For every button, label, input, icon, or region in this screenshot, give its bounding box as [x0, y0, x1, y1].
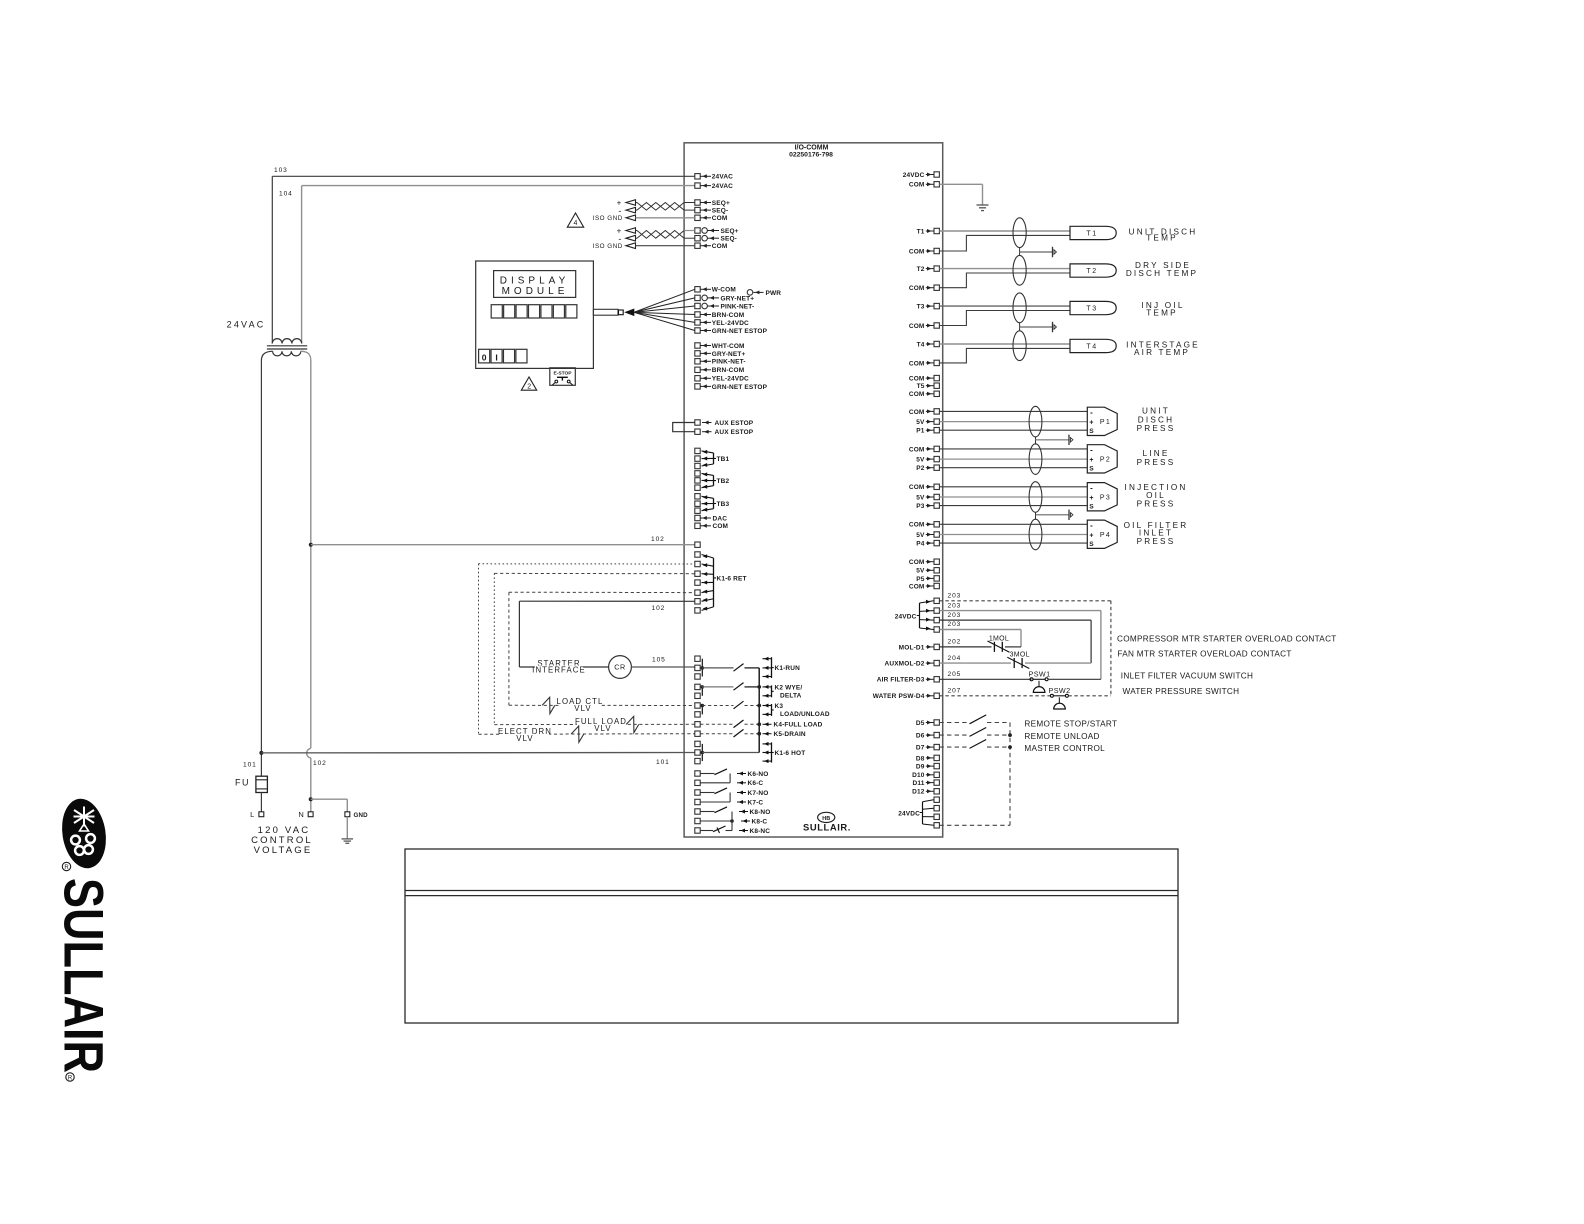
shield drain T3/T4: [1019, 323, 1021, 331]
svg-text:24VAC: 24VAC: [712, 174, 733, 181]
svg-text:K6-C: K6-C: [748, 780, 764, 787]
terminal T2: [934, 266, 939, 271]
wire 104: [302, 185, 695, 187]
sensor P1 body: [1087, 407, 1117, 435]
svg-text:WATER PSW-D4: WATER PSW-D4: [873, 693, 925, 700]
terminal PINK-NET- A: [695, 303, 700, 308]
svg-text:1MOL: 1MOL: [989, 635, 1009, 642]
svg-text:D12: D12: [912, 789, 925, 796]
svg-text:24VAC: 24VAC: [227, 319, 266, 329]
svg-text:207: 207: [948, 688, 962, 695]
wire dashed LOAD CTL loop top: [509, 591, 695, 593]
svg-text:GRY-NET+: GRY-NET+: [712, 351, 746, 358]
svg-text:T4: T4: [917, 341, 925, 348]
contact K4: [700, 723, 733, 725]
svg-text:SULLAIR.: SULLAIR.: [803, 822, 851, 833]
svg-text:P1: P1: [916, 428, 924, 435]
svg-text:203: 203: [948, 593, 962, 600]
wires P4: [939, 523, 1087, 525]
svg-text:P4: P4: [916, 541, 924, 548]
sensor T3 body: [1070, 301, 1116, 314]
svg-text:BRN-COM: BRN-COM: [712, 367, 744, 374]
terminal COM P5b: [934, 583, 939, 588]
terminal 24VDC top: [934, 172, 939, 177]
svg-text:SEQ+: SEQ+: [721, 228, 739, 235]
terminal 102 in: [695, 542, 700, 547]
terminal YEL-24VDC A: [695, 320, 700, 325]
svg-text:VLV: VLV: [516, 734, 533, 743]
svg-text:REMOTE STOP/START: REMOTE STOP/START: [1024, 719, 1117, 728]
wire T4: [939, 343, 1070, 345]
terminal COM T3: [934, 323, 939, 328]
svg-text:K5-DRAIN: K5-DRAIN: [774, 731, 806, 738]
svg-text:T2: T2: [1086, 268, 1097, 275]
terminal BRN-COM A: [695, 312, 700, 317]
svg-text:COM: COM: [909, 360, 925, 367]
svg-text:DELTA: DELTA: [780, 692, 802, 699]
svg-text:TB3: TB3: [717, 501, 730, 508]
svg-text:203: 203: [948, 621, 962, 628]
svg-text:YEL-24VDC: YEL-24VDC: [712, 320, 749, 327]
svg-text:-: -: [1090, 484, 1093, 493]
wire dashed LOAD CTL VLV: [509, 704, 695, 706]
svg-text:AIR FILTER-D3: AIR FILTER-D3: [877, 677, 925, 684]
terminal WATER PSW-D4: [934, 693, 939, 698]
svg-text:101: 101: [243, 762, 257, 769]
svg-text:SEQ-: SEQ-: [721, 236, 738, 243]
svg-text:GRN-NET ESTOP: GRN-NET ESTOP: [712, 328, 768, 335]
wire 101: [259, 751, 263, 755]
terminal AUX ESTOP 2: [695, 429, 700, 434]
terminal COM spare: [934, 375, 939, 380]
wire 203 dashed loop (water): [939, 600, 1111, 602]
terminal AUXMOL-D2: [934, 660, 939, 665]
svg-text:PSW2: PSW2: [1049, 686, 1071, 695]
sensor P3 body: [1087, 483, 1117, 511]
terminal COM T1: [934, 248, 939, 253]
svg-text:COM: COM: [909, 583, 925, 590]
terminal group K1-6 HOT: [695, 741, 700, 746]
terminal 5V P1: [934, 419, 939, 424]
svg-text:COM: COM: [909, 409, 925, 416]
svg-text:5V: 5V: [916, 457, 925, 464]
svg-text:5V: 5V: [916, 568, 925, 575]
svg-text:K4-FULL LOAD: K4-FULL LOAD: [774, 722, 823, 729]
svg-text:203: 203: [948, 612, 962, 619]
terminal GND: [345, 812, 350, 817]
terminal COM P5a: [934, 559, 939, 564]
relay contact K7: [695, 790, 700, 795]
terminal GRY-NET+ A: [695, 295, 700, 300]
svg-text:SEQ+: SEQ+: [712, 200, 730, 207]
svg-text:COM: COM: [909, 522, 925, 529]
terminal P3: [934, 503, 939, 508]
wire 204 + contact 3MOL: [939, 662, 1011, 664]
wire COM T1 step: [939, 235, 1070, 251]
svg-text:GND: GND: [354, 812, 369, 819]
ground symbol top right: [977, 204, 989, 206]
svg-text:D5: D5: [916, 720, 925, 727]
svg-text:WHT-COM: WHT-COM: [712, 343, 745, 350]
svg-text:VOLTAGE: VOLTAGE: [254, 845, 313, 856]
svg-text:AUX ESTOP: AUX ESTOP: [715, 429, 754, 436]
relay contact K8: [695, 809, 700, 814]
svg-text:-: -: [1090, 446, 1093, 455]
svg-text:K6-NO: K6-NO: [748, 771, 769, 778]
terminal D9: [934, 763, 939, 768]
shield ellipse P3: [1029, 482, 1042, 513]
svg-text:24VAC: 24VAC: [712, 183, 733, 190]
wire dotted ELECT DRN loop top: [479, 563, 695, 565]
terminal PINK-NET- B: [695, 359, 700, 364]
svg-text:GRN-NET ESTOP: GRN-NET ESTOP: [712, 384, 768, 391]
terminal D5: [934, 720, 939, 725]
wire 205 + switch PSW1: [939, 678, 1031, 680]
label STARTER INTERFACE: [540, 659, 578, 668]
svg-text:COMPRESSOR MTR STARTER OVERLOA: COMPRESSOR MTR STARTER OVERLOAD CONTACT: [1117, 635, 1337, 644]
wire T3: [939, 305, 1070, 307]
terminal GRN-NET ESTOP B: [695, 384, 700, 389]
terminal block K1-6 RET: [695, 552, 700, 557]
shield ellipse T4: [1013, 331, 1026, 361]
terminal MOL-D1: [934, 644, 939, 649]
terminal 24VAC-2: [695, 183, 700, 188]
svg-text:INLET FILTER VACUUM SWITCH: INLET FILTER VACUUM SWITCH: [1121, 672, 1253, 681]
svg-text:K7-C: K7-C: [748, 799, 764, 806]
shield ellipse P2: [1029, 444, 1042, 475]
svg-text:S: S: [1089, 541, 1094, 548]
svg-text:K8-C: K8-C: [752, 818, 768, 825]
svg-text:COM: COM: [909, 484, 925, 491]
svg-text:PRESS: PRESS: [1137, 537, 1176, 546]
terminal group K2: [695, 684, 700, 689]
terminal T3: [934, 303, 939, 308]
svg-text:TB1: TB1: [717, 456, 730, 463]
terminal K5: [695, 731, 700, 736]
shield ellipse T3: [1013, 293, 1026, 323]
svg-text:24VDC: 24VDC: [895, 613, 917, 620]
shield drain P3/P4: [1035, 512, 1037, 520]
wire 207 + switch PSW2: [939, 695, 1050, 697]
svg-text:203: 203: [948, 602, 962, 609]
twisted pair 1: [637, 203, 684, 211]
svg-text:T2: T2: [917, 266, 925, 273]
display cable stub: [593, 309, 618, 315]
svg-text:3MOL: 3MOL: [1010, 652, 1030, 659]
terminal D7: [934, 744, 939, 749]
ground earth symbol: [346, 817, 348, 839]
svg-text:205: 205: [948, 671, 962, 678]
svg-text:COM: COM: [909, 323, 925, 330]
svg-text:REMOTE UNLOAD: REMOTE UNLOAD: [1024, 732, 1099, 741]
svg-text:+: +: [1089, 532, 1093, 539]
terminal 5V P5: [934, 568, 939, 573]
wire dashed D bus vertical: [1009, 723, 1011, 826]
wire COM to ground: [939, 183, 982, 185]
terminal WHT-COM: [695, 343, 700, 348]
svg-text:MASTER CONTROL: MASTER CONTROL: [1024, 744, 1105, 753]
contact K3: [702, 705, 733, 707]
svg-text:4: 4: [573, 220, 577, 227]
terminal SEQ+ B: [695, 228, 700, 233]
svg-text:T4: T4: [1086, 343, 1097, 350]
shield drain P1/P2: [1035, 437, 1037, 445]
terminal 5V P4: [934, 532, 939, 537]
svg-text:COM: COM: [909, 376, 925, 383]
svg-text:COM: COM: [909, 248, 925, 255]
warning triangle 2: [521, 377, 536, 390]
svg-text:D11: D11: [912, 780, 924, 787]
terminal COM P3: [934, 484, 939, 489]
sensor T4 body: [1070, 339, 1116, 352]
svg-text:2: 2: [527, 383, 531, 390]
svg-text:I: I: [495, 352, 498, 362]
svg-text:T3: T3: [1086, 305, 1097, 312]
svg-text:T1: T1: [917, 228, 925, 235]
node N-GND branch: [309, 797, 313, 801]
svg-text:E-STOP: E-STOP: [553, 370, 572, 376]
title block: [405, 849, 1178, 1023]
wire ISO GND 2: [636, 245, 695, 247]
svg-text:VLV: VLV: [594, 724, 611, 733]
svg-text:PRESS: PRESS: [1137, 424, 1176, 433]
svg-text:PINK-NET-: PINK-NET-: [712, 359, 746, 366]
svg-text:DAC: DAC: [713, 515, 728, 522]
terminal group K3: [695, 703, 700, 708]
terminal D12: [934, 789, 939, 794]
sensor T2 body: [1070, 264, 1116, 277]
connector arrow + pin pair1: [626, 200, 636, 206]
wire 103: [272, 175, 695, 177]
svg-text:D9: D9: [916, 764, 925, 771]
svg-text:105: 105: [652, 656, 666, 663]
terminal COM P2: [934, 446, 939, 451]
shield ellipse P4: [1029, 519, 1042, 550]
svg-text:DISCH TEMP: DISCH TEMP: [1126, 269, 1198, 278]
e-stop switch: [550, 368, 576, 386]
terminal 24VAC-1: [695, 174, 700, 179]
svg-text:N: N: [298, 810, 304, 819]
terminal P4: [934, 540, 939, 545]
svg-text:103: 103: [274, 167, 288, 174]
terminal COM spare2: [934, 391, 939, 396]
svg-text:+: +: [1089, 419, 1093, 426]
shield ellipse P1: [1029, 406, 1042, 437]
svg-text:P3: P3: [1100, 495, 1111, 502]
connector arrow + pin pair2: [626, 228, 636, 234]
wire solid starter loop: [519, 600, 694, 602]
svg-text:K1-6 RET: K1-6 RET: [717, 575, 747, 582]
svg-text:101: 101: [656, 759, 670, 766]
svg-text:T5: T5: [917, 383, 925, 390]
terminal block TB1: [695, 448, 700, 453]
terminal COM A: [695, 215, 700, 220]
terminal COM gnd: [934, 182, 939, 187]
svg-text:LOAD/UNLOAD: LOAD/UNLOAD: [780, 711, 830, 718]
terminal W-COM: [695, 287, 700, 292]
wires P3: [939, 486, 1087, 488]
svg-text:ISO GND: ISO GND: [593, 243, 623, 250]
terminal GRY-NET+ B: [695, 351, 700, 356]
display fan-out wires: [634, 289, 695, 312]
svg-text:P2: P2: [1100, 457, 1111, 464]
contact K2: [702, 686, 733, 688]
terminal P2: [934, 465, 939, 470]
svg-text:24VDC: 24VDC: [903, 172, 925, 179]
svg-text:-: -: [1090, 521, 1093, 530]
contact K5: [700, 733, 733, 735]
terminal AIR FILTER-D3: [934, 677, 939, 682]
Sullair logo: [53, 796, 116, 1082]
svg-text:K2 WYE/: K2 WYE/: [775, 685, 803, 692]
svg-text:AIR TEMP: AIR TEMP: [1134, 348, 1190, 357]
svg-text:K8-NC: K8-NC: [750, 828, 771, 835]
svg-text:K7-NO: K7-NO: [748, 790, 769, 797]
terminal COM P1: [934, 409, 939, 414]
terminal block TB2: [695, 471, 700, 476]
terminal group 24VDC interlock: [934, 598, 939, 603]
module U1 I/O-COMM box: [684, 143, 943, 837]
svg-text:UNIT: UNIT: [1142, 407, 1170, 416]
svg-text:02250176-798: 02250176-798: [789, 151, 833, 158]
svg-text:SULLAIR: SULLAIR: [53, 878, 116, 1073]
svg-text:D8: D8: [916, 755, 925, 762]
svg-text:S: S: [1089, 503, 1094, 510]
svg-text:202: 202: [948, 639, 962, 646]
svg-text:WATER PRESSURE SWITCH: WATER PRESSURE SWITCH: [1123, 687, 1240, 696]
terminal DAC: [695, 515, 700, 520]
svg-text:TEMP: TEMP: [1146, 309, 1178, 318]
svg-text:K1-6 HOT: K1-6 HOT: [775, 750, 806, 757]
terminal N: [308, 812, 313, 817]
terminal SEQ+ A: [695, 200, 700, 205]
svg-text:R: R: [64, 865, 69, 871]
svg-text:PRESS: PRESS: [1137, 500, 1176, 509]
svg-text:102: 102: [313, 760, 327, 767]
svg-text:SEQ-: SEQ-: [712, 208, 729, 215]
svg-text:COM: COM: [909, 446, 925, 453]
terminal 5V P2: [934, 456, 939, 461]
svg-text:104: 104: [279, 191, 293, 198]
svg-text:MODULE: MODULE: [502, 286, 569, 297]
svg-text:T3: T3: [917, 304, 925, 311]
svg-text:AUX ESTOP: AUX ESTOP: [715, 420, 754, 427]
terminal PWR: [747, 290, 753, 296]
svg-text:AUXMOL-D2: AUXMOL-D2: [885, 661, 925, 668]
terminal COM B: [695, 243, 700, 248]
fuse FU: [256, 776, 268, 792]
terminal P5: [934, 576, 939, 581]
terminal COM P4: [934, 522, 939, 527]
svg-text:FAN MTR STARTER OVERLOAD CONTA: FAN MTR STARTER OVERLOAD CONTACT: [1117, 650, 1291, 659]
svg-text:-: -: [1090, 408, 1093, 417]
svg-text:PINK-NET-: PINK-NET-: [721, 303, 755, 310]
svg-text:24VDC: 24VDC: [898, 810, 920, 817]
sensor P4 body: [1087, 520, 1117, 548]
wire COM T3 step: [939, 311, 1070, 326]
svg-text:PRESS: PRESS: [1137, 458, 1176, 467]
terminal D10: [934, 772, 939, 777]
terminal SEQ- A: [695, 207, 700, 212]
wires P2: [939, 448, 1087, 450]
svg-text:5V: 5V: [916, 494, 925, 501]
bus K contacts vertical: [758, 668, 760, 753]
svg-text:102: 102: [652, 605, 666, 612]
terminal group K1-RUN: [695, 656, 700, 661]
terminal COM-DAC: [695, 523, 700, 528]
svg-text:5V: 5V: [916, 532, 925, 539]
wire dashed ELECT DRN VLV: [479, 733, 695, 736]
wire 102: [309, 543, 313, 547]
shield ellipse T1: [1013, 218, 1026, 248]
wire 202 + contact 1MOL: [939, 646, 991, 648]
svg-text:GRY-NET+: GRY-NET+: [721, 295, 755, 302]
svg-text:INTERFACE: INTERFACE: [532, 666, 586, 675]
svg-text:P2: P2: [916, 465, 924, 472]
svg-text:+: +: [1089, 457, 1093, 464]
svg-text:COM: COM: [909, 285, 925, 292]
contact K1: [702, 667, 733, 669]
wire dashed FULL LOAD loop top: [494, 572, 695, 574]
wire T1: [939, 230, 1070, 232]
svg-text:P4: P4: [1100, 532, 1111, 539]
terminal T4: [934, 341, 939, 346]
svg-text:D6: D6: [916, 733, 925, 740]
svg-text:ISO GND: ISO GND: [593, 215, 623, 222]
svg-text:COM: COM: [712, 215, 728, 222]
wire hot vertical: [260, 361, 262, 777]
svg-text:+: +: [1089, 495, 1093, 502]
jumper wire aux estop: [673, 423, 695, 432]
terminal D8: [934, 755, 939, 760]
terminal T1: [934, 228, 939, 233]
wire D7 dashed + contact: [939, 746, 967, 748]
svg-text:PWR: PWR: [766, 290, 782, 297]
display module lower keys: [479, 349, 490, 363]
terminal T5: [934, 383, 939, 388]
svg-text:CR: CR: [614, 663, 625, 672]
svg-text:102: 102: [651, 536, 665, 543]
svg-text:PSW1: PSW1: [1029, 669, 1051, 678]
svg-text:D10: D10: [912, 772, 925, 779]
terminal P1: [934, 428, 939, 433]
wire 203 loop (comp mol): [939, 629, 1021, 631]
svg-text:K8-NO: K8-NO: [750, 809, 771, 816]
wire COM T2 step: [939, 273, 1070, 288]
transformer 24VAC: [272, 339, 301, 344]
display module keys row: [491, 305, 502, 318]
svg-text:P1: P1: [1100, 419, 1111, 426]
starter interface wire 105 + CR relay: [519, 666, 608, 668]
svg-text:S: S: [1089, 428, 1094, 435]
sensor P2 body: [1087, 445, 1117, 473]
svg-text:D7: D7: [916, 745, 925, 752]
wire D5 dashed + contact: [939, 722, 967, 724]
wire dashed FULL LOAD VLV: [494, 723, 695, 725]
svg-text:K1-RUN: K1-RUN: [775, 665, 801, 672]
wire D6 dashed + contact: [939, 734, 967, 736]
sensor T1 body: [1070, 226, 1116, 239]
Sullair logo small: [818, 812, 835, 822]
wire COM T4 step: [939, 348, 1070, 363]
wire 203 loop (inlet filter): [939, 610, 1101, 612]
terminal BRN-COM B: [695, 367, 700, 372]
wire 203 loop (fan mol): [939, 619, 1091, 621]
svg-text:R: R: [68, 1076, 73, 1082]
svg-text:0: 0: [482, 352, 487, 362]
shield drain T1/T2: [1019, 248, 1021, 256]
svg-text:S: S: [1089, 466, 1094, 473]
